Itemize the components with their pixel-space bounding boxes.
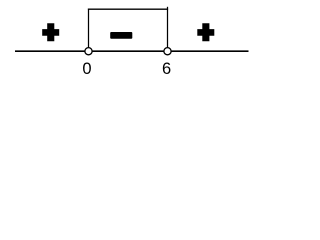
open circle at 6 (164, 48, 171, 55)
svg-text:0: 0 (82, 60, 91, 78)
minus sign (middle interval) (110, 32, 132, 39)
wire: number line (15, 50, 249, 52)
interval box left vertical (88, 9, 90, 48)
open circle at 0 (85, 48, 92, 55)
svg-text:6: 6 (162, 60, 171, 78)
interval box top edge (88, 8, 168, 10)
interval box right vertical (167, 7, 169, 48)
plus sign (left interval) (42, 23, 59, 41)
plus sign (right interval) (197, 23, 214, 41)
